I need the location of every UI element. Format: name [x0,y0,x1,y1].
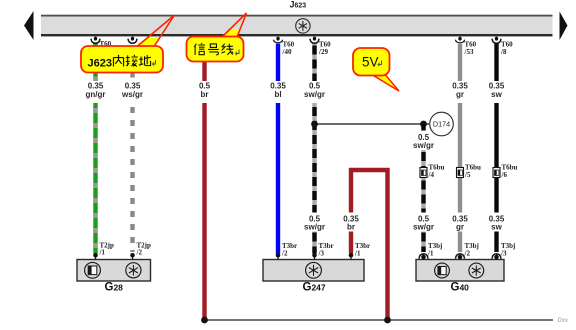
svg-text:J623: J623 [88,58,112,70]
svg-text:G28: G28 [105,282,124,294]
svg-text:br: br [201,90,209,99]
connector T60/8 pin at top of column 8 [492,37,513,56]
G40 pin T3bj/3 [492,242,515,260]
svg-text:/2: /2 [136,248,143,256]
svg-text:/3: /3 [318,250,325,258]
svg-text:gr: gr [456,90,464,99]
svg-text:/1: /1 [354,250,361,258]
G247 pin T3br/3 [312,242,333,260]
svg-text:gn/gr: gn/gr [86,90,106,99]
wire sw column 8 [494,44,498,253]
callout box: signal wire (Chinese) [187,37,244,62]
right arrow of bus [560,12,568,41]
hand-drawn hanzi: xin hao xian [194,43,205,55]
wire br (red signal wire) column 3 [202,37,206,320]
svg-text:G40: G40 [451,282,470,294]
connector T60 pin at top of column 1 [91,37,112,48]
wire label 0.35 br (above G247 pin 1) [343,215,359,232]
callout tail (signal wire) [222,13,247,38]
junction dot bottom left [201,317,208,324]
label J623 [290,0,307,10]
svg-text:gr: gr [456,223,464,232]
wire gr column 7 [458,44,462,253]
return mark [153,60,156,66]
wire label 0.35 ws/gr [121,82,143,99]
connector T60 pin at top of column 2 [128,37,137,44]
junction dot bottom right [384,317,391,324]
svg-text:/29: /29 [318,48,328,56]
branch wire to D174 [311,121,429,128]
svg-text:/4: /4 [428,171,435,179]
svg-text:/40: /40 [282,48,292,56]
red wire loop br from ground line to G247 [349,168,390,320]
svg-text:/53: /53 [464,48,474,56]
ground line at bottom [205,318,568,324]
wire label 0.35 gr upper [452,82,468,99]
callout tail (5V) [373,75,400,91]
wire sw/gr column 5 [312,44,316,254]
G40 pin T3bj/2 [456,242,479,260]
svg-text:/5: /5 [464,171,471,179]
svg-text:sw/gr: sw/gr [413,223,434,232]
wire label 0.5 sw/gr upper [304,82,325,99]
G247 pin T3br/2 [276,242,297,260]
svg-text:sw: sw [491,223,502,232]
svg-text:sw/gr: sw/gr [413,141,434,150]
connector T60/29 pin at top of column 5 [310,37,331,56]
svg-text:/2: /2 [281,250,288,258]
svg-text:D174: D174 [433,120,450,129]
svg-text:G247: G247 [303,282,326,294]
G28 pin T2jp/2 [130,242,151,260]
svg-text:/1: /1 [427,250,434,258]
wire label 0.5 sw/gr lower (above G247) [304,215,325,232]
svg-text:/6: /6 [501,171,508,179]
hand-drawn hanzi: nei jie di [113,55,123,67]
inline connector T6bu/4 [420,164,445,180]
G247 pin T3br/1 [349,242,370,260]
connection symbol inside J623 bus [296,19,310,33]
callout tail (J623 inner ground) [137,15,175,47]
wire ws/gr column 2 [130,44,134,253]
wire label 0.5 br [199,82,211,99]
diode / component D174 [430,112,454,136]
inline connector T6bu/5 [457,164,482,180]
bus bar J623 [41,15,553,37]
return mark [236,50,240,56]
wire label 0.35 bl [270,82,286,99]
left arrow of bus [24,11,34,40]
component G40 (sensor) [416,260,504,294]
svg-text:br: br [347,223,355,232]
svg-text:/8: /8 [500,48,507,56]
connector T60/53 pin at top of column 7 [455,37,476,56]
connector T60/40 pin at top of column 4 [273,37,294,56]
inline connector T6bu/6 [493,164,518,180]
svg-text:bl: bl [274,90,281,99]
component G28 (sensor) [77,260,151,294]
svg-text:Dxx: Dxx [558,318,568,324]
wire label 0.35 gr lower [452,215,468,232]
wire label 0.35 sw lower [489,215,505,232]
wire label 0.5 sw/gr (above G40 pin 1) [413,215,434,232]
wire gn/gr column 1 [93,44,97,254]
component G247 (sensor) [263,260,364,294]
G40 pin T3bj/1 [419,242,442,260]
callout box: J623 internal ground (Chinese) [81,46,163,73]
svg-text:/1: /1 [99,248,106,256]
wire label 0.35 sw upper [489,82,505,99]
svg-text:sw/gr: sw/gr [304,223,325,232]
svg-text:sw: sw [491,90,502,99]
svg-text:/3: /3 [500,250,507,258]
wire sw/gr column 6 (below D174 junction) [421,124,425,252]
svg-text:sw/gr: sw/gr [304,90,325,99]
callout box: 5V [353,48,390,76]
wire label 0.35 gn/gr [86,82,106,99]
svg-text:5V: 5V [362,55,379,70]
G28 pin T2jp/1 [93,242,114,260]
wire label 0.5 sw/gr (below D174 branch) [413,133,434,150]
svg-text:ws/gr: ws/gr [121,90,143,99]
wire bl (blue) column 4 [276,44,280,254]
svg-text:/2: /2 [464,250,471,258]
